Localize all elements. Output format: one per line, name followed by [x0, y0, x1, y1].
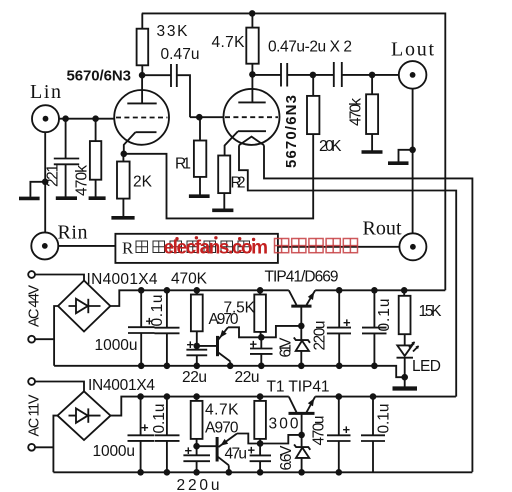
heater filament tube2 — [239, 137, 264, 146]
svg-text:R2: R2 — [231, 175, 246, 192]
svg-text:220u: 220u — [312, 321, 329, 351]
node 221 branch — [62, 115, 69, 122]
capacitor 470u — [311, 393, 351, 475]
wire Lout down to Rout — [412, 89, 414, 234]
wire bridge2 right to pos rail — [111, 397, 289, 416]
resistor 15K — [399, 287, 442, 345]
resistor 7.5K — [224, 287, 266, 337]
watermark chinese characters — [275, 239, 358, 253]
transistor TIP41/D669 — [265, 269, 339, 326]
capacitor 221 — [45, 119, 80, 197]
transistor Q1 A970 upper — [197, 311, 239, 369]
capacitor 47u — [225, 443, 272, 476]
svg-text:7.5K: 7.5K — [224, 300, 256, 317]
svg-text:0.1u: 0.1u — [151, 404, 168, 434]
wire to T1 base — [260, 435, 302, 444]
wire A970 lower emitter to 300 — [237, 434, 260, 444]
resistor 470k output — [348, 75, 379, 151]
svg-text:6.6V: 6.6V — [278, 445, 295, 471]
svg-text:AC 44V: AC 44V — [27, 285, 43, 327]
wire A970 emitter to 7.5K — [228, 327, 261, 337]
capacitor 0.1u upper-right — [362, 287, 393, 369]
svg-text:5670/6N3: 5670/6N3 — [283, 95, 300, 168]
ground under R1 — [189, 194, 210, 198]
terminal AC44V bottom — [28, 336, 35, 343]
capacitor 1000u upper — [95, 287, 155, 369]
svg-text:1000u: 1000u — [93, 443, 136, 460]
text R channel note — [122, 239, 250, 258]
capacitor 0.1u lower-left — [151, 393, 180, 475]
node 4.7K-220u junction — [193, 443, 200, 450]
resistor 4.7K plate — [212, 13, 259, 74]
capacitor 0.47u coupling — [142, 46, 199, 117]
capacitor 1000u lower — [93, 393, 155, 475]
wire to tube2 grid — [190, 116, 224, 118]
resistor 470k input — [74, 119, 102, 197]
ground under 2K — [111, 216, 134, 220]
svg-text:300: 300 — [269, 416, 299, 433]
bridge rectifier IN4001X4 lower — [35, 377, 155, 440]
wire negative rail supply1 — [54, 366, 405, 377]
wire AC44 bottom lead — [35, 338, 54, 340]
wire bridge2 left to neg rail — [53, 416, 57, 473]
svg-text:470K: 470K — [171, 271, 208, 288]
wire to Lout — [372, 74, 399, 76]
node R1 top — [196, 114, 203, 121]
svg-text:470u: 470u — [311, 416, 328, 446]
svg-text:0.1u: 0.1u — [149, 295, 166, 327]
wire heater return — [264, 145, 472, 472]
svg-text:R1: R1 — [175, 156, 191, 173]
svg-text:15K: 15K — [419, 303, 443, 320]
ground under 470k output — [362, 150, 383, 154]
svg-text:470k: 470k — [348, 98, 365, 126]
svg-text:LED: LED — [412, 358, 441, 375]
tube V1a 5670/6N3 — [67, 68, 170, 154]
terminal AC11V top — [28, 378, 35, 385]
wire box to Rout — [278, 246, 400, 248]
wire heater feed 6.3V — [239, 145, 456, 396]
svg-text:2K: 2K — [133, 174, 153, 191]
wire bridge1 right to pos rail — [110, 290, 288, 306]
resistor 2K — [117, 154, 153, 216]
ground main supply — [393, 377, 418, 388]
ground under R2 — [212, 209, 233, 213]
capacitor 0.1u upper-left — [149, 287, 180, 369]
box R channel note — [115, 234, 278, 263]
svg-text:IN4001X4: IN4001X4 — [87, 271, 158, 288]
svg-text:AC 11V: AC 11V — [27, 394, 43, 436]
node 20K tap — [310, 72, 317, 79]
resistor 33K — [137, 13, 189, 75]
node output ground junction — [409, 147, 416, 154]
svg-text:+: + — [343, 315, 351, 330]
capacitor output second — [313, 62, 372, 87]
terminal AC44V top — [28, 271, 35, 278]
node emitter junction upper — [258, 334, 265, 341]
svg-text:470k: 470k — [74, 165, 91, 196]
svg-text:+: + — [185, 443, 193, 458]
wire B+ top rail — [142, 13, 446, 290]
diode LED — [397, 342, 442, 378]
resistor 4.7K bias lower — [191, 393, 239, 455]
svg-text:47u: 47u — [225, 446, 248, 463]
svg-text:Lout: Lout — [391, 39, 434, 61]
svg-text:+: + — [248, 443, 256, 458]
connector Lin — [30, 81, 61, 132]
wire bridge1 left to neg rail — [54, 306, 58, 366]
wire Lin to tube1 grid — [59, 118, 114, 120]
wire AC11 bottom lead — [35, 446, 53, 448]
transistor T1 TIP41 — [267, 379, 330, 435]
node LED bottom junction — [401, 374, 408, 381]
svg-text:Rout: Rout — [363, 218, 402, 240]
ground bent near Lin — [19, 182, 45, 199]
svg-text:IN4001X4: IN4001X4 — [88, 377, 155, 394]
svg-text:0.47u-2u X 2: 0.47u-2u X 2 — [268, 39, 352, 56]
transistor Q2 A970 lower — [197, 420, 239, 476]
capacitor 220u lower — [177, 443, 220, 492]
watermark elecfans.com — [164, 236, 269, 258]
svg-text:TIP41/D669: TIP41/D669 — [265, 269, 339, 286]
wire to TIP41 base — [261, 326, 301, 337]
node tube2 plate junction — [249, 71, 256, 78]
ground under 470k input — [89, 196, 106, 200]
wire negative rail supply2 — [53, 471, 472, 473]
svg-text:+: + — [187, 337, 195, 352]
bridge rectifier IN4001X4 upper — [35, 271, 158, 332]
resistor R1 — [175, 117, 206, 194]
tube V1b 5670/6N3 — [224, 74, 301, 168]
capacitor output first — [268, 39, 352, 87]
svg-text:A970: A970 — [205, 420, 239, 437]
svg-text:Rin: Rin — [58, 222, 88, 244]
ground bent near Lout — [388, 150, 413, 163]
node emitter junction lower — [257, 440, 264, 447]
svg-text:20K: 20K — [319, 138, 342, 155]
svg-text:Lin: Lin — [30, 81, 61, 103]
resistor 300 — [254, 393, 299, 443]
connector Rout — [363, 218, 427, 261]
resistor 470K bias — [171, 271, 208, 350]
ground under 221 — [56, 196, 77, 200]
node TIP41 base junction — [298, 323, 305, 330]
svg-text:1000u: 1000u — [95, 337, 138, 354]
svg-text:4.7K: 4.7K — [205, 402, 239, 419]
node B+ at 4.7K top — [249, 10, 256, 17]
wire positive output rail upper — [315, 289, 445, 291]
wire 20K to tube1 cathode — [124, 134, 313, 218]
node T1 base junction — [298, 432, 305, 439]
svg-text:0.1u: 0.1u — [376, 404, 393, 434]
wire positive output rail lower — [315, 396, 456, 398]
resistor 20K feedback — [307, 75, 342, 155]
svg-text:33K: 33K — [157, 23, 189, 40]
svg-text:22u: 22u — [182, 369, 207, 386]
svg-text:+: + — [141, 420, 149, 435]
terminal AC11V bottom — [28, 444, 35, 451]
wire Rin to box — [58, 245, 115, 247]
node 470k output top — [369, 72, 376, 79]
capacitor 0.1u lower-right — [361, 393, 393, 472]
svg-text:T1 TIP41: T1 TIP41 — [267, 379, 330, 396]
node tube1 plate junction — [139, 72, 146, 79]
svg-text:4.7K: 4.7K — [212, 34, 246, 51]
wire Lin shield down to Rin — [44, 132, 46, 232]
svg-text:5670/6N3: 5670/6N3 — [67, 68, 132, 85]
svg-text:61V: 61V — [278, 337, 295, 358]
svg-text:22u: 22u — [235, 369, 260, 386]
node shield junction — [42, 179, 49, 186]
svg-text:0.1u: 0.1u — [376, 299, 393, 332]
svg-text:+: + — [250, 337, 258, 352]
capacitor 220u upper — [312, 287, 352, 369]
connector Lout — [391, 39, 434, 89]
zener 6.6V — [278, 435, 310, 476]
capacitor 22u second — [235, 337, 273, 387]
svg-text:0.47u: 0.47u — [161, 46, 200, 63]
node 470K-22u junction — [194, 343, 201, 350]
node 470k branch — [92, 115, 99, 122]
capacitor 22u first — [182, 337, 207, 386]
svg-text:+: + — [343, 422, 351, 437]
svg-text:elecfans.com: elecfans.com — [164, 238, 269, 259]
node tube1 cathode — [121, 151, 128, 158]
svg-text:R: R — [122, 239, 134, 258]
resistor R2 — [218, 156, 245, 209]
connector Rin — [31, 222, 87, 260]
zener 61V — [278, 326, 311, 369]
wire plate2 to caps — [252, 74, 281, 76]
